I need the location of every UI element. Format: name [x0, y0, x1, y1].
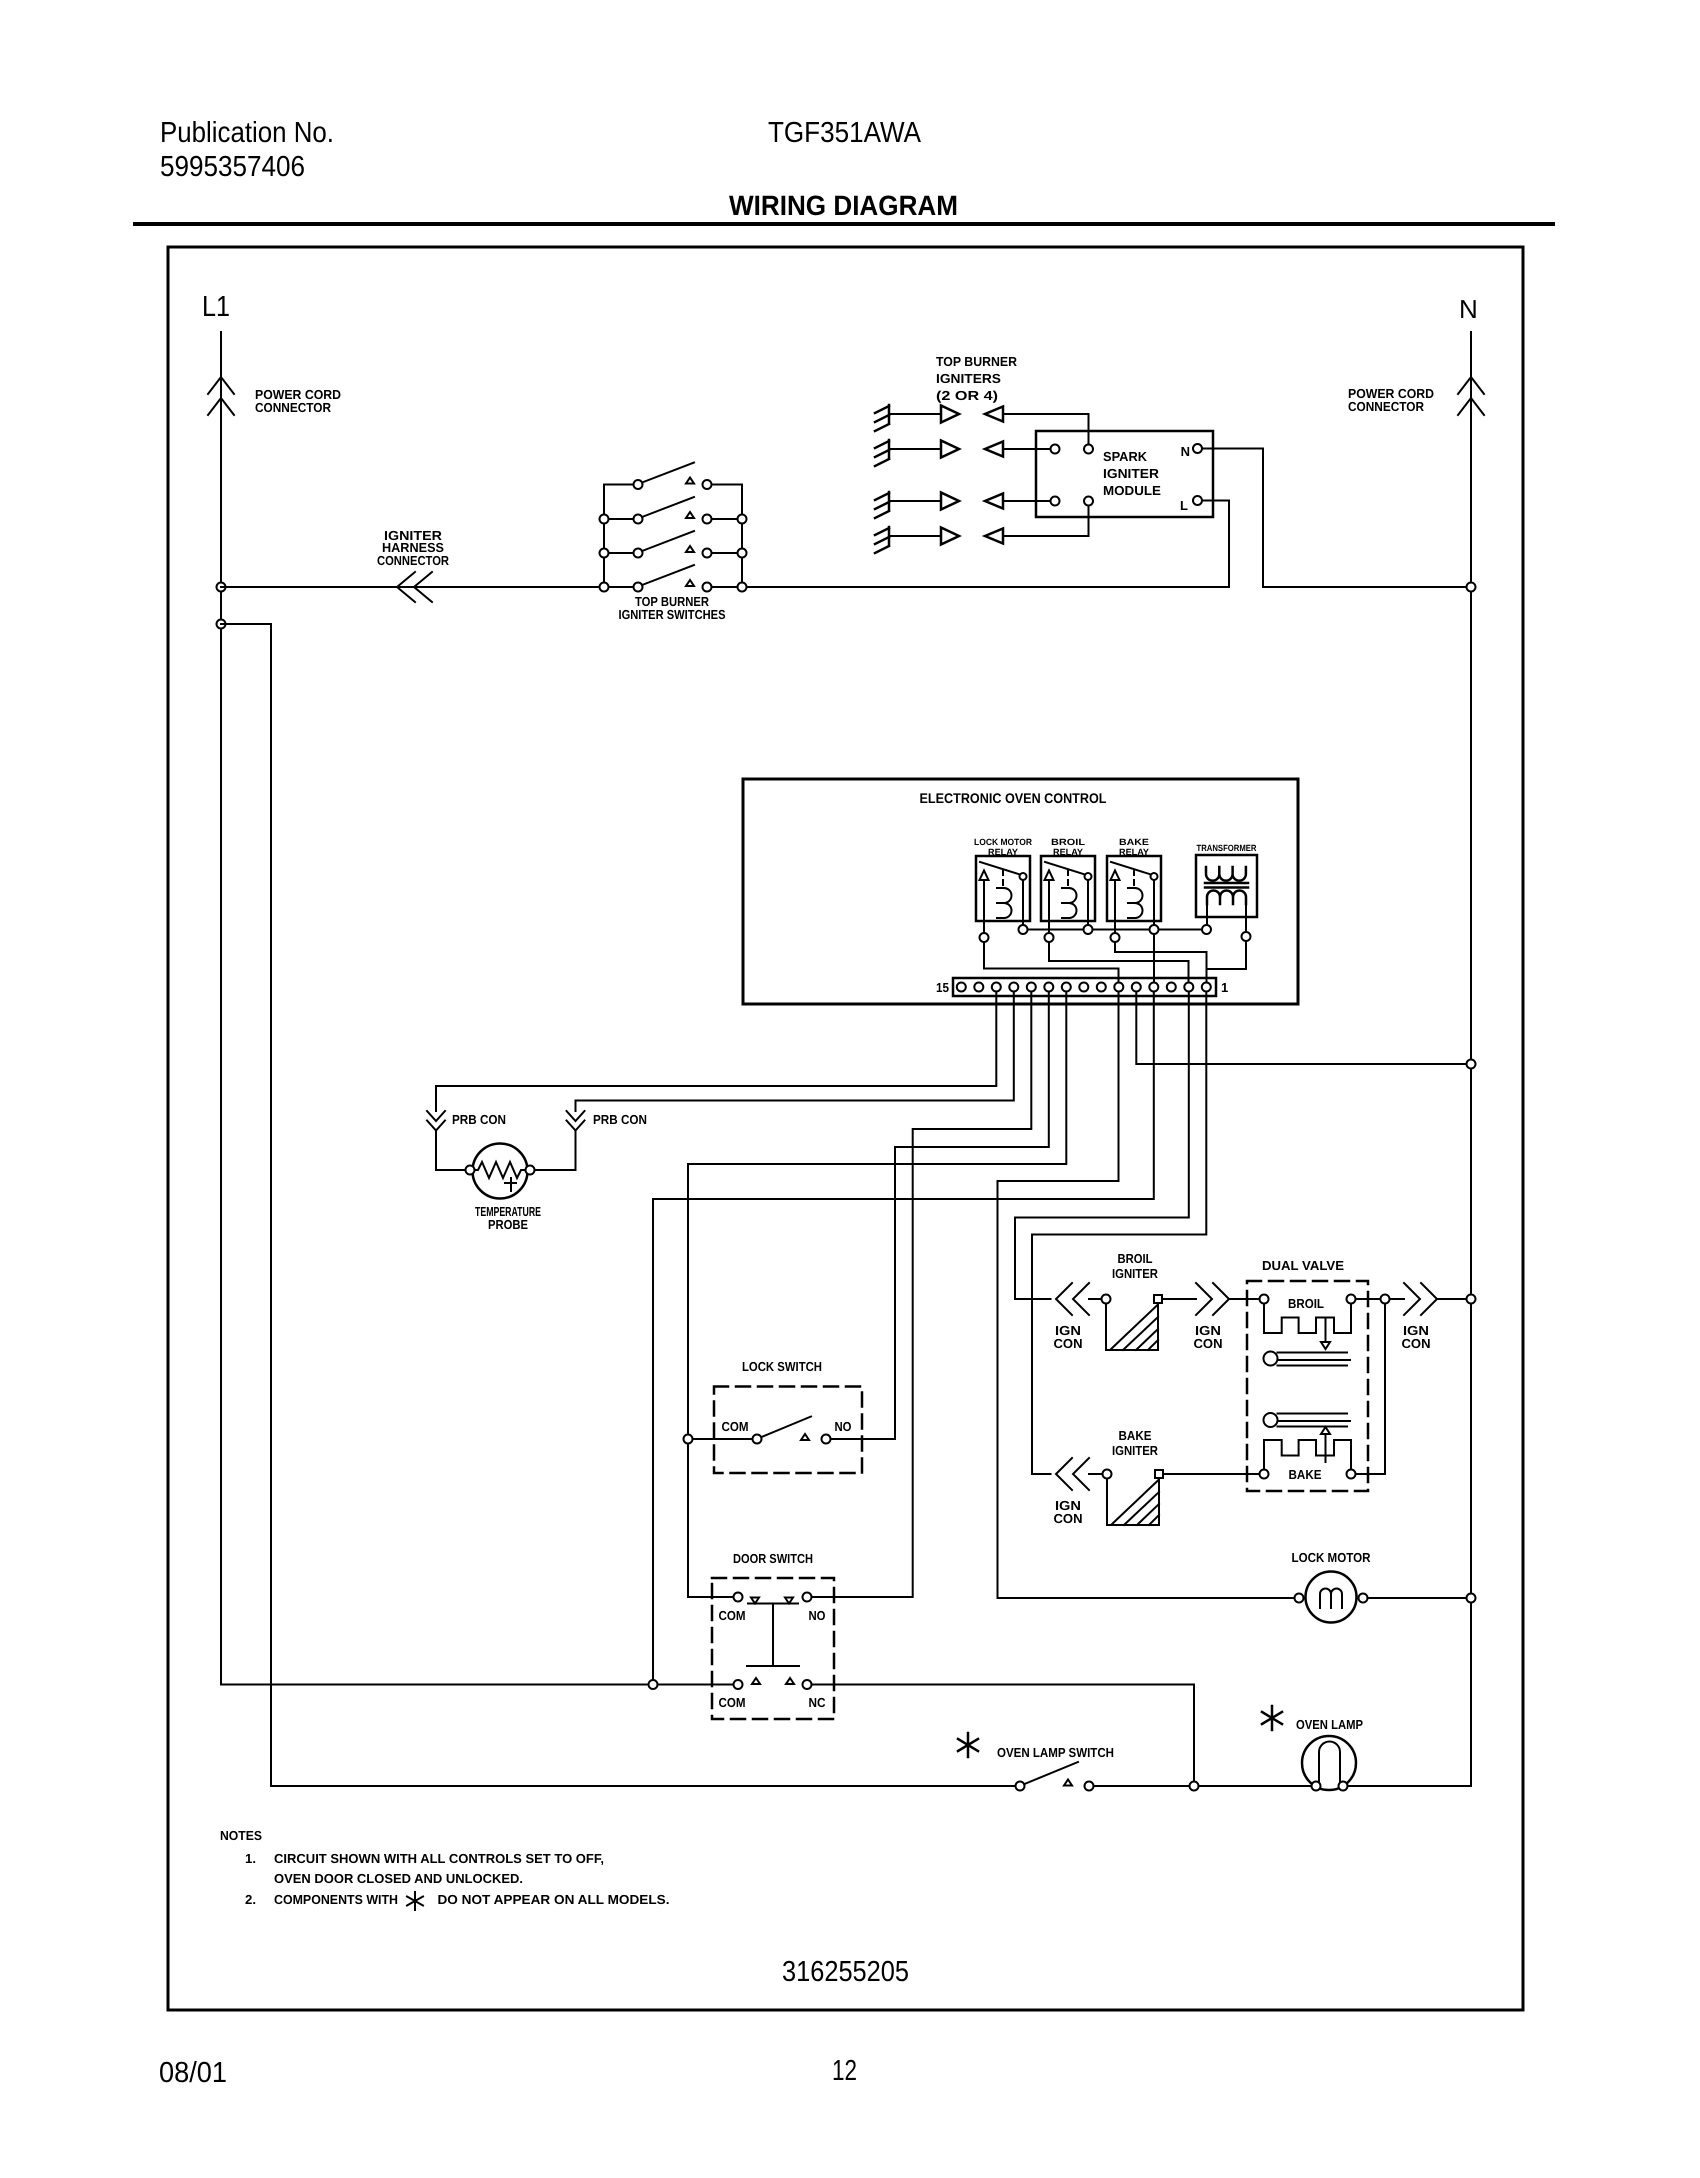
wire: terminal 2 to broil igniter [1015, 992, 1189, 1300]
lock switch dashed box [714, 1387, 862, 1474]
svg-text:TOP BURNER: TOP BURNER [936, 354, 1018, 369]
dual valve bake left terminal [1260, 1470, 1269, 1479]
probe connector PRB CON 2 chevrons [567, 1111, 585, 1131]
svg-text:08/01: 08/01 [159, 2057, 227, 2089]
spark module terminal L [1193, 496, 1202, 505]
svg-text:CON: CON [1054, 1511, 1083, 1526]
spark igniter module box [1036, 431, 1213, 517]
wire: broil valve to junction [1356, 1298, 1381, 1300]
switch S1 blade [642, 463, 694, 483]
relay U1 contact lead [1022, 880, 1024, 925]
node: junction lock switch COM feed [684, 1435, 693, 1444]
spark module terminal (row3) [1051, 497, 1060, 506]
svg-text:CON: CON [1194, 1336, 1223, 1351]
svg-text:IGNITER: IGNITER [1103, 466, 1160, 481]
terminal strip pin 12 [1009, 983, 1018, 992]
relay U3 mechanical link (dashed) [1133, 870, 1135, 886]
top burner igniter switches: left rail [603, 485, 605, 588]
svg-text:NO: NO [809, 1608, 826, 1623]
node: junction switches right rail [738, 549, 747, 558]
top burner igniter 3 wire to gap [889, 500, 941, 502]
IGN CON chevrons (broil to N) [1404, 1283, 1437, 1315]
svg-text:SPARK: SPARK [1103, 449, 1148, 464]
lock motor right terminal [1359, 1594, 1368, 1603]
label: broil igniter [1112, 1251, 1159, 1281]
relay U2 pole lead [1048, 880, 1050, 933]
terminal strip pin 2 [1184, 983, 1193, 992]
relay U1 (LOCK MOTOR RELAY) box [976, 856, 1030, 921]
oven lamp switch contact triangle [1064, 1780, 1072, 1786]
switch S1 pole terminal [634, 480, 643, 489]
terminal strip pin 3 [1167, 983, 1176, 992]
lock motor winding symbol [1320, 1589, 1342, 1609]
electronic oven control box [743, 779, 1298, 1004]
terminal strip pin 7 [1097, 983, 1106, 992]
svg-text:Publication No.: Publication No. [160, 117, 334, 149]
wire: switches to L terminal riser (y=587) [742, 586, 1229, 588]
relay U1 pole lead [983, 880, 985, 933]
node: junction at valve output [1381, 1295, 1390, 1304]
top burner igniter 3 spark gap arrow (left) [985, 494, 1003, 509]
relay U3 pole lead [1114, 880, 1116, 933]
switch S4 wire: rail to pole [604, 586, 634, 588]
top burner igniter 2 electrode [875, 440, 889, 466]
relay U3 pole connector [1111, 933, 1120, 942]
relay U3 blade [1111, 862, 1151, 875]
wire: relay output bus [1023, 929, 1207, 931]
broil igniter left terminal [1102, 1295, 1111, 1304]
svg-text:IGNITERS: IGNITERS [936, 371, 1001, 386]
oven lamp right terminal [1339, 1782, 1348, 1791]
top burner igniter 1 wire to gap [889, 413, 941, 415]
terminal strip pin 14 [974, 983, 983, 992]
switch S4 pole terminal [634, 583, 643, 592]
oven lamp body circle [1302, 1736, 1356, 1790]
top burner igniter 3 spark gap arrow (right) [941, 493, 959, 510]
svg-text:COMPONENTS WITH: COMPONENTS WITH [274, 1892, 398, 1907]
lock motor left terminal [1295, 1594, 1304, 1603]
broil igniter element (hatched) [1106, 1304, 1158, 1351]
wire: oven lamp to N rail corner [1348, 1785, 1472, 1787]
node: junction N rail at y=1064 [1467, 1060, 1476, 1069]
top burner igniter 2 wire to gap [889, 448, 941, 450]
svg-text:5995357406: 5995357406 [160, 151, 305, 183]
node: junction L1 rail to lamp branch [217, 620, 226, 629]
svg-text:NO: NO [835, 1419, 852, 1434]
label: IGN CON (broil middle) [1194, 1323, 1223, 1351]
svg-text:OVEN DOOR CLOSED AND UNLOCKED.: OVEN DOOR CLOSED AND UNLOCKED. [274, 1871, 523, 1886]
temperature probe t mark [505, 1178, 516, 1191]
transformer T1 core [1205, 883, 1248, 888]
svg-text:OVEN LAMP SWITCH: OVEN LAMP SWITCH [997, 1745, 1114, 1760]
wire: door switch NC to oven lamp line [812, 1685, 1195, 1782]
relay U1 pole arrow [980, 871, 989, 881]
bake valve solenoid crenellation [1264, 1440, 1351, 1470]
node: junction door switch NC line [1190, 1782, 1199, 1791]
svg-text:316255205: 316255205 [782, 1956, 909, 1988]
relay U1 mechanical link (dashed) [1002, 870, 1004, 886]
transformer T1 box [1196, 855, 1257, 917]
door switch upper NO terminal [803, 1593, 812, 1602]
svg-text:2.: 2. [245, 1892, 256, 1907]
node: bus connector at lock relay contact [1019, 925, 1028, 934]
wire: igniter 2 to spark module [1003, 448, 1051, 450]
title underline rule [135, 222, 1553, 226]
node: junction switches left rail [600, 515, 609, 524]
node: bus connector at transformer left lead [1202, 925, 1211, 934]
wire: broil igniter to IGN CON [1162, 1298, 1196, 1300]
door switch lower contact triangles [752, 1678, 794, 1684]
wire: L1 to top burner igniter switches (y=587) [221, 586, 604, 588]
relay U3 label [1119, 837, 1149, 857]
relay U3 contact terminal [1151, 873, 1158, 880]
svg-text:RELAY: RELAY [988, 847, 1018, 857]
svg-text:IGNITER: IGNITER [1112, 1443, 1159, 1458]
lock switch COM terminal [753, 1435, 762, 1444]
relay U1 label [974, 837, 1032, 857]
door switch upper contact triangles [751, 1598, 793, 1604]
svg-text:N: N [1181, 444, 1190, 459]
label: igniter harness connector [377, 528, 450, 568]
switch S2 throw terminal [703, 515, 712, 524]
terminal strip pin 1 [1202, 983, 1211, 992]
door switch dashed box [712, 1578, 834, 1719]
svg-text:NC: NC [809, 1695, 827, 1710]
svg-text:CIRCUIT SHOWN WITH ALL CONTROL: CIRCUIT SHOWN WITH ALL CONTROLS SET TO O… [274, 1851, 604, 1866]
svg-text:LOCK SWITCH: LOCK SWITCH [742, 1359, 822, 1374]
node: junction lower COM line with lock feed [649, 1680, 658, 1689]
svg-text:CONNECTOR: CONNECTOR [377, 553, 450, 568]
wire: junction to lock switch COM [693, 1438, 753, 1440]
wire: terminal 9 to lock switch COM / door switch COM [688, 992, 1066, 1598]
transformer T1 secondary winding [1207, 891, 1246, 905]
top burner igniter 4 spark gap arrow (left) [985, 529, 1003, 544]
label: top burner igniter switches [619, 594, 726, 622]
power cord connector (right) chevrons [1458, 377, 1484, 415]
wire: PRB CON 2 to probe right terminal [535, 1131, 576, 1171]
wire: IGN CON to dual valve broil [1229, 1298, 1260, 1300]
svg-text:BROIL: BROIL [1118, 1251, 1153, 1266]
transformer T1 right lead connector [1242, 932, 1251, 941]
svg-text:12: 12 [832, 2055, 857, 2087]
wire: lock motor to N rail [1368, 1597, 1472, 1599]
EOC terminal strip box [953, 978, 1216, 996]
spark module terminal N [1193, 444, 1202, 453]
dual valve broil right terminal [1347, 1295, 1356, 1304]
wire: terminal 13 to probe connector 1 [436, 992, 996, 1112]
relay U3 contact lead [1153, 880, 1155, 925]
top burner igniter 1 spark gap arrow (right) [941, 406, 959, 423]
svg-text:L: L [1180, 498, 1188, 513]
switch S3 wire: rail to pole [604, 552, 634, 554]
dual valve bake right terminal [1347, 1470, 1356, 1479]
door switch lower COM terminal [734, 1680, 743, 1689]
power cord connector (left) chevrons [208, 377, 234, 415]
switch S3 wire: throw to right rail [712, 552, 743, 554]
terminal strip pin 6 [1114, 983, 1123, 992]
wire: bake relay pole to terminal 15 [1115, 942, 1207, 981]
svg-text:BAKE: BAKE [1289, 1467, 1322, 1482]
wire: lamp switch to oven lamp [1094, 1785, 1312, 1787]
svg-text:NOTES: NOTES [220, 1828, 262, 1843]
top burner igniter 3 electrode [875, 492, 889, 518]
wire: riser to spark module L [1202, 501, 1229, 588]
igniter harness connector chevrons [397, 572, 432, 602]
relay U1 pole connector [980, 933, 989, 942]
temperature probe right terminal [526, 1166, 535, 1175]
spark module terminal (row2) [1051, 445, 1060, 454]
switch S4 contact triangle [686, 580, 694, 586]
node: junction N rail at y=587 [1467, 583, 1476, 592]
bake valve actuator arrow [1321, 1427, 1330, 1462]
svg-text:LOCK MOTOR: LOCK MOTOR [1292, 1550, 1372, 1565]
top burner igniter switches: right rail [741, 485, 743, 588]
bake igniter element (hatched) [1107, 1479, 1159, 1526]
svg-text:N: N [1459, 294, 1478, 324]
diagram border frame [168, 247, 1523, 2010]
svg-text:PROBE: PROBE [488, 1217, 528, 1232]
IGN CON chevrons (bake left) [1056, 1458, 1089, 1490]
broil igniter right terminal (square) [1154, 1295, 1162, 1303]
label: temperature probe [475, 1204, 541, 1232]
lock motor body circle [1306, 1572, 1357, 1623]
relay U2 pole connector [1045, 933, 1054, 942]
svg-text:COM: COM [719, 1608, 746, 1623]
door switch plunger [747, 1604, 799, 1667]
bake igniter left terminal [1103, 1470, 1112, 1479]
probe connector PRB CON 1 chevrons [427, 1111, 445, 1131]
svg-text:DUAL VALVE: DUAL VALVE [1262, 1258, 1344, 1273]
oven lamp left terminal [1312, 1782, 1321, 1791]
node: junction switches left rail [600, 583, 609, 592]
oven lamp switch throw terminal [1085, 1782, 1094, 1791]
svg-text:OVEN LAMP: OVEN LAMP [1296, 1717, 1363, 1732]
top burner igniter 4 electrode [875, 527, 889, 553]
lock switch contact triangle [801, 1434, 809, 1440]
wire: igniter 4 to spark module bottom [1003, 506, 1089, 537]
lock switch NO terminal [822, 1435, 831, 1444]
label: bake igniter [1112, 1428, 1159, 1458]
svg-text:ELECTRONIC OVEN CONTROL: ELECTRONIC OVEN CONTROL [920, 790, 1107, 806]
top burner igniter 1 electrode [875, 405, 889, 431]
switch S2 wire: throw to right rail [712, 518, 743, 520]
relay U2 (BROIL RELAY) box [1041, 856, 1095, 921]
IGN CON chevrons (broil left) [1056, 1283, 1089, 1315]
svg-text:BAKE: BAKE [1119, 1428, 1152, 1443]
switch S3 contact triangle [686, 546, 694, 552]
svg-text:BROIL: BROIL [1288, 1296, 1324, 1311]
door switch lower NC terminal [803, 1680, 812, 1689]
svg-text:PRB CON: PRB CON [593, 1112, 647, 1127]
switch S2 blade [642, 497, 694, 517]
switch S1 contact triangle [686, 478, 694, 484]
switch S2 contact triangle [686, 512, 694, 518]
wire: bottom run to oven lamp switch [271, 1785, 1016, 1787]
terminal strip pin 10 [1044, 983, 1053, 992]
relay U1 blade [980, 862, 1020, 875]
svg-text:MODULE: MODULE [1103, 483, 1161, 498]
relay U2 mechanical link (dashed) [1067, 870, 1069, 886]
bake igniter right terminal (square) [1155, 1470, 1163, 1478]
relay U2 contact terminal [1085, 873, 1092, 880]
wire: terminal 10b to lock switch NO [831, 992, 1049, 1440]
svg-text:CONNECTOR: CONNECTOR [1348, 399, 1425, 414]
node: junction switches left rail [600, 549, 609, 558]
wire: N rail vertical [1470, 332, 1472, 1786]
svg-text:DOOR SWITCH: DOOR SWITCH [733, 1551, 813, 1566]
label: IGN CON (bake left) [1054, 1498, 1083, 1526]
wire: lock relay pole to terminal 10 [984, 942, 1119, 981]
relay U3 pole arrow [1111, 871, 1120, 881]
relay U3 (BAKE RELAY) box [1107, 856, 1161, 921]
top burner igniter 4 spark gap arrow (right) [941, 528, 959, 545]
svg-text:CON: CON [1054, 1336, 1083, 1351]
wire: chevron to bake igniter terminal [1089, 1473, 1103, 1475]
node: junction N rail at y=1598 [1467, 1594, 1476, 1603]
svg-text:(2 OR 4): (2 OR 4) [936, 388, 998, 403]
relay U1 coil [997, 888, 1012, 918]
oven lamp switch blade [1025, 1762, 1079, 1784]
label: IGN CON (broil left) [1054, 1323, 1083, 1351]
wire: PRB CON 1 to probe left terminal [436, 1131, 466, 1171]
svg-text:TRANSFORMER: TRANSFORMER [1197, 843, 1257, 853]
terminal strip pin 9 [1062, 983, 1071, 992]
broil valve actuator arrow [1321, 1318, 1330, 1349]
terminal strip pin 8 [1079, 983, 1088, 992]
svg-text:CONNECTOR: CONNECTOR [255, 400, 332, 415]
switch S4 blade [642, 565, 694, 585]
dual valve broil left terminal [1260, 1295, 1269, 1304]
broil valve body cylinder [1264, 1352, 1351, 1366]
label: top burner igniters (2 or 4) [936, 354, 1018, 403]
switch S2 wire: rail to pole [604, 518, 634, 520]
transformer T1 right lead [1245, 904, 1247, 932]
svg-text:DO NOT APPEAR ON ALL MODELS.: DO NOT APPEAR ON ALL MODELS. [438, 1892, 670, 1907]
svg-text:CON: CON [1402, 1336, 1431, 1351]
switch S1 wire: throw to right rail [712, 484, 743, 486]
top burner igniter 4 wire to gap [889, 535, 941, 537]
note 2 asterisk symbol [407, 1892, 423, 1910]
wire: terminal 1 to bake igniter [1032, 992, 1206, 1475]
wire: terminal 12 to probe connector 2 [576, 992, 1014, 1112]
relay U2 blade [1045, 862, 1085, 875]
door switch upper COM terminal [734, 1593, 743, 1602]
terminal strip pin 11 [1027, 983, 1036, 992]
svg-text:PRB CON: PRB CON [452, 1112, 506, 1127]
svg-text:COM: COM [719, 1695, 746, 1710]
svg-text:15: 15 [936, 980, 949, 995]
svg-text:1: 1 [1221, 980, 1228, 995]
label: spark igniter module [1103, 449, 1161, 498]
transformer T1 left lead to bus [1206, 904, 1208, 925]
svg-text:TGF351AWA: TGF351AWA [768, 117, 922, 149]
svg-text:COM: COM [722, 1419, 749, 1434]
node: junction switches right rail [738, 515, 747, 524]
node: junction N rail at y=1299 [1467, 1295, 1476, 1304]
relay U1 contact terminal [1020, 873, 1027, 880]
svg-text:IGNITER SWITCHES: IGNITER SWITCHES [619, 607, 726, 622]
label: power cord connector (left) [255, 387, 341, 415]
temperature probe left terminal [466, 1166, 475, 1175]
spark module terminal (row4) [1084, 497, 1093, 506]
wire: L1 rail vertical [220, 332, 222, 1685]
lock switch blade [762, 1417, 812, 1438]
wire: bus to terminal 12 [1153, 934, 1155, 981]
transformer T1 primary winding [1206, 867, 1246, 881]
svg-text:L1: L1 [202, 291, 230, 323]
wire: junction down to bake valve right [1356, 1304, 1386, 1475]
top burner igniter 1 spark gap arrow (left) [985, 407, 1003, 422]
asterisk: oven lamp switch [958, 1733, 978, 1757]
switch S3 blade [642, 531, 694, 551]
top burner igniter 2 spark gap arrow (left) [985, 442, 1003, 457]
IGN CON chevrons (broil right) [1196, 1283, 1229, 1315]
switch S3 throw terminal [703, 549, 712, 558]
relay U3 coil [1128, 888, 1143, 918]
switch S3 pole terminal [634, 549, 643, 558]
wire: igniter 1 to spark module top [1003, 414, 1089, 445]
wire: igniter 3 to spark module [1003, 500, 1051, 502]
relay U2 label [1051, 837, 1086, 857]
wire: terminal 12b to door switch lower COM line [653, 992, 1154, 1685]
wire: bake igniter to dual valve bake [1163, 1473, 1260, 1475]
wire: junction to N rail [1390, 1298, 1472, 1300]
node: bus connector at broil relay contact [1084, 925, 1093, 934]
wire: chevron to broil igniter terminal [1089, 1298, 1102, 1300]
svg-text:IGNITER: IGNITER [1112, 1266, 1159, 1281]
terminal strip pin 5 [1132, 983, 1141, 992]
relay U2 coil [1062, 888, 1077, 918]
wire: broil relay pole to terminal 14 [1049, 942, 1189, 981]
spark module terminal (row1) [1084, 445, 1093, 454]
top burner igniter 2 spark gap arrow (right) [941, 441, 959, 458]
switch S4 wire: throw to right rail [712, 586, 743, 588]
svg-text:BROIL: BROIL [1051, 837, 1086, 847]
switch S1 throw terminal [703, 480, 712, 489]
broil valve solenoid crenellation [1264, 1304, 1351, 1334]
terminal strip pin 15 [957, 983, 966, 992]
node: junction switches right rail [738, 583, 747, 592]
wire: terminal 10 to lock motor [998, 992, 1295, 1599]
temperature probe body circle [473, 1144, 528, 1199]
switch S4 throw terminal [703, 583, 712, 592]
wire: transformer right lead to terminal 15 riser [1207, 941, 1247, 969]
bake valve body cylinder [1264, 1413, 1351, 1427]
wire: terminal 5 to N rail [1136, 992, 1471, 1065]
node: junction L1 rail with igniter harness wire [217, 583, 226, 592]
wire: L1 rail to door switch lower COM [221, 1684, 734, 1686]
svg-text:BAKE: BAKE [1119, 837, 1149, 847]
wire: spark module N to N rail [1202, 449, 1471, 588]
label: power cord connector (right) [1348, 386, 1434, 414]
svg-text:RELAY: RELAY [1119, 847, 1149, 857]
oven lamp switch pole terminal [1016, 1782, 1025, 1791]
terminal strip pin 4 [1149, 983, 1158, 992]
asterisk: oven lamp [1262, 1706, 1282, 1730]
wire: terminal 11 to door switch NO [812, 992, 1032, 1598]
temperature probe resistor element [475, 1162, 526, 1178]
switch S1 wire: rail to pole [604, 484, 634, 486]
svg-text:1.: 1. [245, 1851, 256, 1866]
svg-text:RELAY: RELAY [1053, 847, 1083, 857]
wire: branch from L1 down left side to oven lamp circuit [221, 624, 271, 1786]
dual valve dashed box [1247, 1281, 1368, 1491]
svg-text:WIRING DIAGRAM: WIRING DIAGRAM [729, 190, 958, 221]
terminal strip pin 13 [992, 983, 1001, 992]
label: IGN CON (right) [1402, 1323, 1431, 1351]
relay U2 pole arrow [1045, 871, 1054, 881]
oven lamp filament [1319, 1742, 1340, 1783]
